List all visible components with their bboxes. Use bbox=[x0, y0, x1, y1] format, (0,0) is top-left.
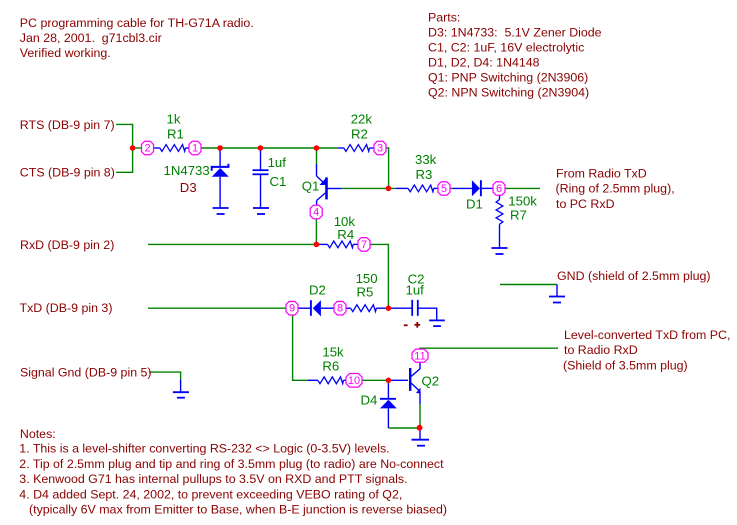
svg-text:(Ring of 2.5mm plug),: (Ring of 2.5mm plug), bbox=[556, 182, 675, 196]
svg-text:TxD (DB-9 pin 3): TxD (DB-9 pin 3) bbox=[20, 301, 113, 315]
svg-text:Q1: Q1 bbox=[302, 179, 320, 194]
svg-text:1k: 1k bbox=[167, 112, 181, 127]
svg-text:Signal Gnd (DB-9 pin 5): Signal Gnd (DB-9 pin 5) bbox=[20, 366, 152, 380]
svg-text:33k: 33k bbox=[415, 152, 437, 167]
svg-text:7: 7 bbox=[361, 239, 367, 251]
svg-text:D4: D4 bbox=[361, 392, 378, 407]
svg-text:(typically 6V max from Emitter: (typically 6V max from Emitter to Base, … bbox=[29, 502, 447, 516]
svg-text:2: 2 bbox=[144, 143, 150, 155]
svg-text:C1, C2: 1uF, 16V electrolytic: C1, C2: 1uF, 16V electrolytic bbox=[428, 41, 584, 55]
svg-text:Notes:: Notes: bbox=[20, 427, 56, 441]
svg-text:10: 10 bbox=[348, 375, 360, 387]
svg-text:R6: R6 bbox=[322, 359, 339, 374]
svg-text:to PC RxD: to PC RxD bbox=[556, 197, 615, 211]
svg-text:4. D4 added Sept. 24, 2002, to: 4. D4 added Sept. 24, 2002, to prevent e… bbox=[19, 487, 402, 501]
svg-text:1N4733: 1N4733 bbox=[164, 163, 210, 178]
svg-text:Jan 28, 2001. g71cbl3.cir: Jan 28, 2001. g71cbl3.cir bbox=[20, 31, 162, 45]
svg-text:(Shield of 3.5mm plug): (Shield of 3.5mm plug) bbox=[563, 359, 688, 373]
svg-text:Q2: NPN Switching (2N3904): Q2: NPN Switching (2N3904) bbox=[428, 86, 589, 100]
svg-text:Parts:: Parts: bbox=[428, 11, 460, 25]
svg-text:Verified working.: Verified working. bbox=[20, 46, 111, 60]
svg-text:1uf: 1uf bbox=[268, 155, 287, 170]
svg-text:1uf: 1uf bbox=[406, 283, 425, 298]
svg-text:15k: 15k bbox=[322, 345, 344, 360]
svg-text:11: 11 bbox=[414, 350, 425, 362]
svg-text:5: 5 bbox=[441, 183, 447, 195]
svg-text:PC programming cable for TH-G7: PC programming cable for TH-G71A radio. bbox=[20, 16, 254, 30]
svg-text:Q1: PNP Switching (2N3906): Q1: PNP Switching (2N3906) bbox=[428, 71, 588, 85]
svg-text:6: 6 bbox=[496, 183, 502, 195]
svg-text:D1: D1 bbox=[466, 196, 483, 211]
svg-text:RTS (DB-9 pin 7): RTS (DB-9 pin 7) bbox=[20, 118, 115, 132]
svg-text:4: 4 bbox=[313, 207, 319, 219]
svg-text:2. Tip of 2.5mm plug and tip a: 2. Tip of 2.5mm plug and tip and ring of… bbox=[19, 457, 444, 471]
svg-text:Q2: Q2 bbox=[422, 373, 440, 388]
svg-text:3: 3 bbox=[377, 143, 383, 155]
svg-text:1: 1 bbox=[192, 143, 198, 155]
svg-text:9: 9 bbox=[289, 303, 295, 315]
svg-text:R5: R5 bbox=[357, 285, 374, 300]
svg-text:R4: R4 bbox=[337, 227, 354, 242]
svg-text:RxD (DB-9 pin 2): RxD (DB-9 pin 2) bbox=[20, 238, 114, 252]
svg-text:R1: R1 bbox=[167, 127, 184, 142]
svg-text:D2: D2 bbox=[309, 283, 326, 298]
svg-text:CTS (DB-9 pin 8): CTS (DB-9 pin 8) bbox=[20, 166, 115, 180]
svg-text:8: 8 bbox=[337, 303, 343, 315]
svg-text:From Radio TxD: From Radio TxD bbox=[556, 166, 647, 180]
svg-text:Level-converted TxD from PC,: Level-converted TxD from PC, bbox=[564, 328, 730, 342]
svg-text:D1, D2, D4: 1N4148: D1, D2, D4: 1N4148 bbox=[428, 56, 540, 70]
svg-text:to Radio RxD: to Radio RxD bbox=[564, 343, 638, 357]
svg-text:22k: 22k bbox=[351, 112, 373, 127]
svg-text:D3: 1N4733: 5.1V Zener Diode: D3: 1N4733: 5.1V Zener Diode bbox=[428, 26, 602, 40]
svg-text:1. This is a level-shifter con: 1. This is a level-shifter converting RS… bbox=[19, 442, 389, 456]
svg-text:D3: D3 bbox=[180, 180, 197, 195]
svg-text:C1: C1 bbox=[270, 174, 287, 189]
svg-text:3. Kenwood G71 has internal pu: 3. Kenwood G71 has internal pullups to 3… bbox=[19, 472, 407, 486]
svg-text:R3: R3 bbox=[416, 167, 433, 182]
svg-text:GND (shield of 2.5mm plug): GND (shield of 2.5mm plug) bbox=[557, 269, 711, 283]
svg-text:R2: R2 bbox=[351, 127, 368, 142]
svg-text:R7: R7 bbox=[510, 207, 527, 222]
